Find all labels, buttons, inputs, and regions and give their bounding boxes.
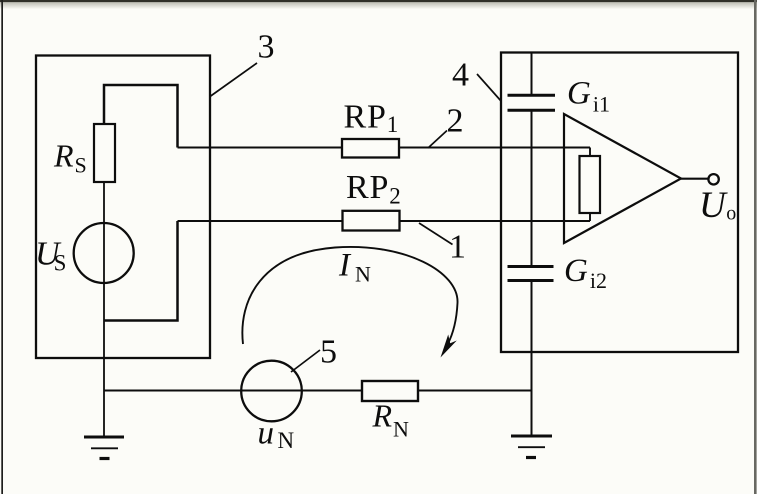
wire: op-amp output [681,178,708,180]
svg-text:2: 2 [447,103,464,140]
wire: shield top to capacitor Gi1 [531,53,533,95]
right shield box 4 [501,53,738,353]
svg-text:5: 5 [320,334,337,371]
wire: Gi1 to Gi2 [531,112,533,266]
wire: left vertical to ground rail [103,321,105,438]
resistor RS [94,124,115,182]
voltage source US [74,223,134,283]
pointer line to label 4 [477,74,501,101]
left shield box 3 [36,56,210,359]
current loop arrow IN [242,247,457,345]
svg-text:1: 1 [449,229,466,266]
pointer line to label 5 [291,350,320,372]
potentiometer RP1 [342,139,399,158]
right ground [511,435,552,438]
svg-text:3: 3 [258,29,275,66]
op-amp triangle [564,114,681,243]
wire: bottom ground rail [104,390,532,392]
svg-text:4: 4 [452,57,469,94]
left ground [84,436,124,439]
output terminal Uo circle [708,174,718,184]
noise source uN [241,361,302,422]
wire: Gi2 down to right ground [531,282,533,437]
wire: node 2 horizontal [178,147,591,149]
resistor RN [362,381,418,401]
wire: input resistor bottom to node 1 [589,213,591,221]
wire: US loop up to node 1 [104,221,178,321]
wire: RS top via step to node 2 [104,85,178,148]
capacitor Gi2 [508,265,554,268]
pointer line to label 3 [210,63,257,97]
wire: RS bottom through source US down to inner loop [103,181,105,321]
pointer line to label 2 [428,131,447,149]
capacitor Gi1 [508,94,556,97]
potentiometer RP2 [343,211,400,231]
input resistor inside op-amp [580,156,601,213]
pointer line to label 1 [419,223,453,245]
wire: node 2 stub to input resistor top [589,148,591,157]
wire: node 1 horizontal [178,220,591,222]
